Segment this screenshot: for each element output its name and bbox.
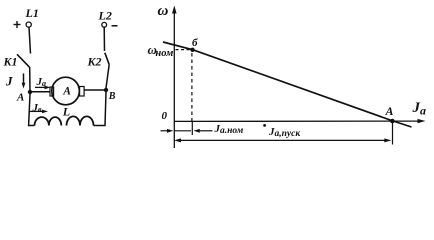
node A (28, 90, 32, 94)
dimension Ja.nom arrows (161, 129, 213, 133)
wire node A to armature (30, 91, 51, 93)
wire K1 to node A (29, 67, 31, 92)
terminal L1 (26, 22, 31, 27)
brush right (80, 87, 85, 97)
dashed vertical from B (191, 53, 193, 121)
switch K1 blade (17, 54, 30, 67)
svg-text:0: 0 (162, 110, 168, 122)
terminal L2 (102, 22, 107, 27)
svg-text:L2: L2 (98, 9, 112, 23)
Ja axis (horizontal) (174, 119, 425, 123)
node B (104, 88, 108, 92)
tick below point A (392, 122, 394, 145)
svg-text:Jа: Jа (412, 100, 427, 118)
svg-text:б: б (192, 37, 198, 49)
armature U1 circle (52, 77, 80, 105)
dashed horizontal to B (176, 49, 190, 51)
svg-text:K1: K1 (3, 55, 18, 69)
svg-text:L: L (62, 104, 70, 118)
plus sign (14, 21, 21, 28)
wire node A down to winding (29, 94, 35, 126)
svg-text:А: А (62, 85, 71, 97)
characteristic line (163, 42, 412, 127)
wire K2 to L2 (103, 27, 105, 51)
tick below axis at point B abscissa (191, 121, 193, 135)
svg-text:A: A (385, 104, 394, 118)
omega axis (172, 6, 177, 149)
brush left (50, 87, 54, 96)
point B dot (190, 48, 194, 52)
wire node B to K2 (106, 65, 109, 89)
dimension Ja.pusk line with arrows (174, 138, 391, 142)
point A dot (390, 119, 395, 124)
minus sign (112, 25, 118, 27)
switch K2 blade (105, 53, 109, 65)
svg-text:K2: K2 (87, 55, 102, 69)
svg-text:A: A (16, 92, 24, 104)
wire L1 to K1 (29, 27, 31, 53)
current Ja arrow (35, 86, 51, 90)
current J arrow (down) (22, 74, 26, 89)
field winding L arcs (35, 116, 94, 125)
svg-text:ω: ω (158, 3, 169, 19)
svg-text:J: J (5, 74, 13, 89)
svg-text:B: B (108, 91, 116, 102)
wire node B down to winding (94, 92, 107, 126)
wire armature to node B (84, 89, 107, 91)
current Jв arrow (30, 110, 49, 114)
svg-text:L1: L1 (25, 6, 39, 20)
stray dot (263, 124, 266, 127)
